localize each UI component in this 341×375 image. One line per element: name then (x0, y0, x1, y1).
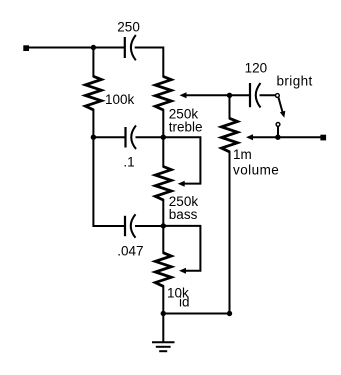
svg-text:100k: 100k (105, 92, 135, 107)
node treble-bass junction (161, 135, 166, 140)
output terminal (320, 135, 326, 141)
capacitor C .047 left plate (124, 216, 126, 236)
wire cap 120 to bright switch (261, 94, 276, 96)
wire right column bass to 10k (162, 200, 164, 253)
node volume bottom junction (227, 311, 232, 316)
potentiometer treble wiper arrow (180, 92, 187, 98)
wire input to cap 250 (29, 47, 124, 49)
wire cap 250 to right column (136, 48, 164, 77)
wire right column treble to bass (162, 110, 164, 167)
ground bar 1 (153, 341, 174, 343)
svg-text:treble: treble (169, 120, 203, 135)
svg-text:.1: .1 (123, 155, 134, 170)
node treble wiper-volume-cap junction (227, 93, 232, 98)
svg-text:250: 250 (117, 20, 140, 35)
node ground junction (161, 311, 166, 316)
wire left column mid to .047 corner (93, 110, 124, 226)
wire .1 branch right (137, 136, 164, 138)
node bass-10k junction (161, 223, 166, 228)
ground bar 3 (160, 350, 166, 352)
potentiometer R 1m volume body (222, 118, 238, 152)
svg-text:.047: .047 (117, 243, 143, 258)
wire volume wiper to output (251, 136, 321, 138)
bright switch blade arrowhead (280, 111, 285, 118)
capacitor C 250 right curved plate (131, 35, 136, 60)
svg-text:120: 120 (245, 61, 268, 76)
wire .1 branch left (93, 136, 124, 138)
wire treble wiper to volume node (185, 94, 230, 96)
wire volume bottom lead (229, 152, 231, 314)
capacitor C 120 left plate (249, 83, 251, 107)
potentiometer R 1m volume top lead (229, 95, 231, 118)
wire bottom rail (163, 313, 229, 315)
wire switch lower terminal to output wire (277, 127, 279, 138)
svg-text:bass: bass (169, 207, 198, 222)
wire 10k wiper loop (163, 226, 200, 271)
node left mid junction (91, 135, 96, 140)
svg-text:bright: bright (277, 74, 313, 89)
input terminal (23, 45, 29, 51)
ground bar 2 (157, 346, 170, 348)
svg-text:volume: volume (233, 162, 279, 177)
capacitor C .1 right curved plate (131, 126, 136, 150)
capacitor C 120 right curved plate (256, 83, 261, 108)
potentiometer R 250k treble body (155, 77, 171, 111)
node bright-output junction (275, 135, 280, 140)
wire .047 branch right (136, 225, 163, 227)
potentiometer R 250k bass body (155, 167, 171, 201)
resistor R 100k (85, 76, 101, 110)
wire right column 10k to ground rail (162, 286, 164, 313)
capacitor C .047 right curved plate (131, 214, 136, 238)
bright switch blade (279, 98, 284, 115)
bright switch upper terminal (276, 94, 280, 98)
capacitor C 250 left plate (124, 37, 126, 58)
wire node to cap 120 (230, 94, 249, 96)
svg-text:1m: 1m (233, 147, 252, 162)
potentiometer volume wiper arrow (246, 134, 253, 140)
node top-left junction (91, 45, 96, 50)
wire bass wiper loop (163, 137, 200, 183)
wire left column top (92, 48, 94, 77)
svg-text:id: id (179, 295, 190, 310)
ground stub (162, 314, 164, 342)
bright switch lower terminal (276, 123, 280, 127)
potentiometer bass wiper arrow (178, 181, 185, 187)
potentiometer R 10k body (155, 253, 171, 286)
capacitor C .1 left plate (124, 127, 126, 148)
potentiometer 10k wiper arrow (179, 268, 186, 274)
